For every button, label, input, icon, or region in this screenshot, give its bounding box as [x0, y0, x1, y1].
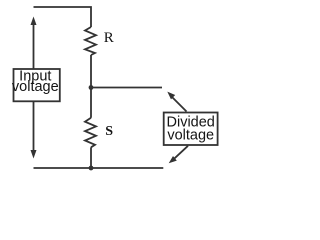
svg-text:voltage: voltage — [12, 79, 59, 95]
svg-text:R: R — [104, 30, 114, 46]
svg-text:S: S — [105, 124, 113, 139]
svg-text:voltage: voltage — [167, 127, 214, 143]
